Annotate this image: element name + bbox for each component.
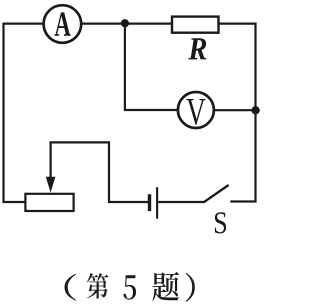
wire left branch: from ammeter left terminal along top, down left side, to rheostat left terminal [4, 24, 43, 202]
wire slider wiper to battery negative plate [50, 142, 149, 202]
battery B1 short thick plate (negative) [148, 194, 151, 211]
caption character Ti (problem) [152, 272, 179, 301]
node junction J2 (voltmeter branch / right branch) [251, 106, 259, 114]
rheostat slider arrow shaft [49, 142, 51, 178]
wire right branch: down right side to switch fixed contact [230, 23, 255, 202]
wire battery positive plate to switch hinge [158, 201, 204, 203]
rheostat slider arrowhead [46, 177, 56, 193]
wire voltmeter right terminal to node J2 [215, 109, 253, 111]
voltmeter label V [186, 99, 205, 125]
resistor value label R [188, 38, 206, 59]
wire resistor right terminal to top-right corner [220, 23, 256, 25]
ammeter label A [55, 12, 71, 35]
voltmeter V1 (circle) [178, 92, 214, 128]
rheostat RP (slide resistor box body) [25, 194, 73, 211]
wire voltmeter branch: from node J1 down and right to voltmeter left terminal [125, 23, 177, 110]
caption fullwidth left parenthesis [65, 274, 77, 301]
battery B1 long thin plate (positive) [156, 187, 158, 219]
resistor R (box body) [172, 17, 219, 33]
wire ammeter right terminal to resistor left terminal [82, 23, 172, 25]
ammeter A1 (circle) [44, 5, 82, 43]
caption character Di (first) [87, 273, 109, 299]
node junction J1 (top wire / voltmeter branch) [121, 19, 129, 27]
caption digit 5 [124, 275, 137, 299]
switch label S [215, 212, 226, 233]
caption fullwidth right parenthesis [186, 273, 195, 302]
switch S blade (open) [204, 185, 229, 202]
